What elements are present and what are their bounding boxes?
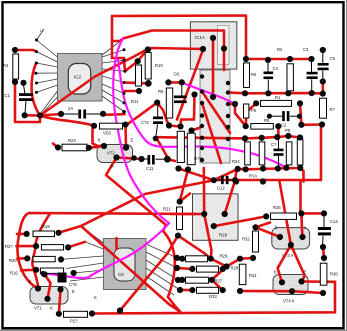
wire R21 line crossing C8 <box>120 236 178 311</box>
svg-text:R20: R20 <box>9 258 17 263</box>
resistor R5h <box>251 118 273 129</box>
wire IC1B crossing diagonal 1 <box>202 92 230 134</box>
svg-text:C14: C14 <box>330 219 338 224</box>
node pads resistor AB <box>177 123 183 129</box>
wire diagonal crossing C8 <box>81 226 180 312</box>
wire R21 top stub to V trace <box>180 194 190 202</box>
wire R31 bottom to VT4 <box>240 290 292 293</box>
diode VD2 <box>100 123 123 135</box>
IC1B left pin pads <box>200 74 204 78</box>
svg-text:R7: R7 <box>330 107 336 112</box>
capacitor C3 <box>264 61 279 92</box>
svg-text:IC2: IC2 <box>74 75 82 80</box>
node pads VD2 VT2 area <box>55 144 61 150</box>
node pads mid right <box>253 100 259 106</box>
svg-text:E: E <box>304 270 307 275</box>
wire fan down-left to R4 leg <box>15 82 40 122</box>
svg-text:C1: C1 <box>5 93 11 98</box>
wire y93 row <box>246 92 312 95</box>
wire R28 box pad2 to R25 <box>214 216 266 226</box>
wire arc tap R19 <box>17 245 37 248</box>
node pads y93 row <box>242 90 248 96</box>
capacitor C12mid <box>141 104 163 137</box>
svg-text:R25: R25 <box>273 205 281 210</box>
resistor row3 <box>186 277 223 283</box>
wire R28 box pad down-right out to row1 <box>204 214 211 259</box>
wire VD2 right pad down to VT2 top pad <box>124 125 127 148</box>
resistor R1 <box>261 95 292 106</box>
wire C14 bottom to pad <box>323 247 324 258</box>
wire junction to R31 <box>227 259 241 267</box>
svg-text:R2: R2 <box>277 47 283 52</box>
wire R7 bottom row <box>301 123 322 126</box>
resistor R18 <box>33 224 55 237</box>
svg-text:R30: R30 <box>330 272 338 277</box>
node pads VT1 <box>35 285 41 291</box>
capacitor C6 <box>269 111 299 133</box>
wire VD2 right pad up to junction <box>126 103 157 126</box>
wire magenta M1 shallow bottom run <box>43 223 169 278</box>
svg-text:VT4 K: VT4 K <box>283 299 295 304</box>
wire R19 right red stub <box>68 242 85 248</box>
node pads mid-left column <box>177 199 183 205</box>
IC2 left pin fan <box>36 29 58 115</box>
wire R25 right pads link <box>301 212 324 215</box>
wire VT4 e to right corner <box>302 280 336 283</box>
C8 left pin fan <box>61 227 104 282</box>
svg-text:R6: R6 <box>251 72 257 77</box>
capacitor C1 <box>5 85 34 113</box>
svg-text:U: U <box>40 28 43 33</box>
wire junction to R9 bottom <box>157 103 169 126</box>
transistor VT1 body <box>30 287 68 311</box>
wire resistor A top chain to IC1B pin <box>169 95 195 127</box>
wire inner arc chain <box>32 214 50 289</box>
svg-text:C8: C8 <box>174 72 180 77</box>
resistor R2 <box>277 47 293 91</box>
wire R25 right up to big line <box>299 182 302 214</box>
svg-text:VT2: VT2 <box>107 151 115 156</box>
wire IC1A vertical x213 <box>212 38 215 97</box>
wire R4 top to pin pad <box>15 50 37 52</box>
wire R23 left stub <box>53 144 58 148</box>
wire R28 box vertical in <box>203 168 206 214</box>
node pads VT4 <box>279 279 285 285</box>
resistor R10 <box>145 53 163 80</box>
svg-text:R18: R18 <box>42 224 50 229</box>
node pads VT3 <box>277 234 283 240</box>
svg-text:2A: 2A <box>68 106 73 111</box>
op-amp IC2 body <box>58 54 103 102</box>
wire magenta-end pad to VT1 bottom <box>45 274 51 299</box>
wire y93.6 right link <box>312 92 323 95</box>
IC1A outline box <box>190 22 236 69</box>
resistor R31 <box>239 264 257 284</box>
node pads top-left <box>12 47 18 53</box>
resistor R4 <box>3 54 19 79</box>
wire VT1 c to R22 <box>59 290 61 314</box>
wire row1 right to R31 top <box>211 259 227 290</box>
svg-text:R28: R28 <box>231 266 239 271</box>
wire VT2 bottom diag to arc join <box>106 158 166 232</box>
wire IC1B right pin y92 to row <box>228 91 246 94</box>
svg-text:P8: P8 <box>285 128 291 133</box>
resistor R5v <box>244 104 257 118</box>
wire R7 bottom down to big line <box>320 125 323 181</box>
wire C11 right to resistor A bottom <box>167 159 175 161</box>
node pad magenta end <box>40 271 45 276</box>
svg-text:R31: R31 <box>249 273 257 278</box>
capacitor C12 <box>215 176 235 191</box>
svg-text:C8: C8 <box>118 272 124 277</box>
wire R32 top to VT3 b <box>256 227 281 237</box>
transistor VT4 body <box>273 275 308 304</box>
wire box pad2 up stub <box>223 213 226 214</box>
capacitor C5 <box>303 47 318 92</box>
node pads R22 bottom line <box>56 311 62 317</box>
resistor network box R28 <box>193 194 239 241</box>
svg-text:VD2: VD2 <box>103 131 112 136</box>
wire VT3 bottom to VT4 b <box>278 245 291 282</box>
resistor R11 <box>131 65 142 104</box>
svg-text:C2: C2 <box>281 123 287 128</box>
wire fan pad stubs C8 right <box>177 257 182 260</box>
wire A-line overlay across R21 <box>170 213 196 216</box>
resistor R23 <box>62 138 87 151</box>
node pads R28 box <box>201 211 207 217</box>
resistor R13a vertical <box>177 131 184 162</box>
IC2 pin pads <box>35 39 38 42</box>
letter labels <box>29 138 307 301</box>
resistor row4c <box>286 142 292 165</box>
wire arc tap R18 <box>17 233 27 236</box>
capacitor C8cap <box>174 72 187 104</box>
wire y169 row <box>214 169 238 180</box>
capacitor C16 block <box>58 273 78 288</box>
resistor R7 <box>320 98 336 118</box>
wire C12 right up stub <box>235 170 236 181</box>
svg-text:R32: R32 <box>242 237 250 242</box>
wire pin elbow <box>112 57 124 60</box>
svg-text:R11: R11 <box>131 99 139 104</box>
wire IC1B pin y139 to bottom resistor row tops <box>156 136 300 138</box>
svg-text:R28: R28 <box>219 233 228 238</box>
svg-text:R23: R23 <box>68 138 76 143</box>
svg-text:C3: C3 <box>273 66 279 71</box>
wire R18 right to V vertex <box>59 226 82 233</box>
svg-text:R9: R9 <box>158 89 164 94</box>
resistor row4b <box>249 142 265 179</box>
wire fan arc to pin pad <box>32 63 40 116</box>
wire C9 elbow <box>321 82 324 94</box>
resistor R9 <box>158 88 173 118</box>
transistor VT3 body <box>272 228 310 258</box>
wire R10 top to IC1A pad <box>148 48 203 50</box>
node pads R32 R31 <box>252 224 258 230</box>
wire VD2 left pad down to VT2 <box>93 126 105 146</box>
wire R21 bottom to row1 <box>178 236 211 259</box>
resistor R25 <box>271 205 297 219</box>
wire pin link through R11 top <box>125 49 148 71</box>
wire R23 right to VT2 <box>89 146 104 148</box>
svg-text:E: E <box>131 138 134 143</box>
node pads IC1A <box>210 35 216 41</box>
resistor R20 <box>9 256 55 263</box>
wire rising trace fan to R11 R10 <box>40 49 148 116</box>
svg-text:K: K <box>50 306 53 311</box>
wire arc join to bottom line <box>168 297 180 312</box>
resistor R32 <box>242 231 259 252</box>
svg-text:C12: C12 <box>217 186 225 191</box>
node pads bottom resistor row mid <box>242 135 248 141</box>
capacitor C11 <box>142 155 168 171</box>
wire pin to R11 bottom pad <box>123 90 139 93</box>
svg-text:K: K <box>111 164 114 169</box>
capacitor C9 <box>318 50 336 81</box>
wire fan curve to VD2 left pad <box>40 116 94 126</box>
resistor R6 <box>244 63 258 88</box>
svg-text:R4: R4 <box>3 63 9 68</box>
wire magenta M2 branch <box>118 60 286 168</box>
wire R32 top rising stub <box>256 223 271 228</box>
wire arc tap R16 <box>21 268 36 271</box>
wire V trace rising to R7 column <box>81 180 321 226</box>
wire C12 right down to box pad <box>225 180 235 214</box>
svg-text:R10: R10 <box>155 63 163 68</box>
svg-text:R1: R1 <box>275 95 281 100</box>
resistor R22 <box>64 311 88 323</box>
wire magenta M1 long S <box>113 39 169 224</box>
wire fan to C1 pad <box>25 114 40 117</box>
wire magenta pad down to R5h <box>235 104 246 126</box>
svg-text:P5: P5 <box>251 108 257 113</box>
C8 right pin fan <box>146 244 180 295</box>
wire row corner to big line <box>300 168 303 182</box>
wire big long trace arc + rising line <box>18 213 205 289</box>
node pads upper middle <box>135 58 141 64</box>
svg-text:R21: R21 <box>163 207 171 212</box>
wire R32 bottom to R31 top <box>240 257 253 260</box>
wire IC1A inner diagonal <box>177 49 204 120</box>
transistor VT2 body <box>97 145 133 163</box>
node pads bottom mid resistor column <box>179 256 185 262</box>
wire bottom long line <box>92 282 335 314</box>
svg-text:C3: C3 <box>303 47 309 52</box>
resistor R16 <box>10 268 64 276</box>
svg-text:R29: R29 <box>220 254 228 259</box>
node pads bottom-left rows <box>24 231 30 237</box>
wire pin to R10 bottom pad <box>124 81 148 85</box>
wire resistor B top stub <box>192 126 203 131</box>
wire resistor B bottom diag <box>180 170 188 202</box>
wire C12mid pad to C11 right <box>156 138 168 160</box>
resistor R19 <box>5 244 64 250</box>
op-amp C8 body <box>104 239 147 290</box>
svg-text:R?A: R?A <box>249 174 257 179</box>
wire 2A cap right to pin pad <box>103 113 125 116</box>
svg-text:R2?: R2? <box>5 244 13 249</box>
resistor row2 <box>197 266 239 273</box>
wire bottom resistor row bottoms y168 <box>238 168 301 169</box>
wire R25 right down to VT3 e <box>301 213 302 237</box>
svg-text:C?: C? <box>271 142 277 147</box>
resistor R21 <box>163 207 183 230</box>
node pads R25 area <box>233 178 239 184</box>
IC1B right pin pads <box>226 81 230 85</box>
capacitor 2A <box>61 106 103 119</box>
wire fan to 2A cap pad <box>40 114 61 116</box>
IC1B tall strip <box>200 70 230 163</box>
svg-text:E: E <box>72 289 75 294</box>
svg-text:R24: R24 <box>232 159 240 164</box>
svg-text:R16: R16 <box>10 271 18 276</box>
wire R1 left link <box>246 103 256 126</box>
wire y59 top-right row <box>246 58 312 61</box>
node pad under C12mid <box>153 136 159 142</box>
wire upper middle elbow to IC1A column <box>112 31 224 71</box>
svg-text:C?8: C?8 <box>69 282 77 287</box>
capacitor C13 <box>271 140 284 167</box>
wire resistor A bottom diag <box>179 169 214 181</box>
wire R5h right to C13 top <box>277 126 280 138</box>
svg-text:P2?: P2? <box>70 319 78 324</box>
capacitor C14 <box>318 215 338 245</box>
wire arc tap R20 <box>18 257 28 260</box>
resistor row4 <box>197 287 219 299</box>
wire IC1B crossing diagonal 2 <box>202 103 221 163</box>
svg-text:IC1A: IC1A <box>195 35 205 40</box>
svg-text:K: K <box>94 295 97 300</box>
wire pin pads vertical link <box>124 59 125 72</box>
svg-text:VT1: VT1 <box>34 306 42 311</box>
svg-text:C?2: C?2 <box>141 120 149 125</box>
wire central steep down <box>280 182 305 282</box>
wire top loop vertical x112 <box>112 16 246 60</box>
svg-text:R33: R33 <box>209 294 217 299</box>
wire C8 top pin stub <box>115 238 118 249</box>
wire IC1B pin y104 to magenta pad <box>228 103 235 106</box>
wire R30 bottom to corner <box>292 291 323 293</box>
resistor row4a <box>232 142 250 165</box>
resistor R13b vertical <box>187 133 202 165</box>
wire C8cap pads <box>168 81 181 84</box>
resistor row1 <box>186 254 228 262</box>
wire x301 vertical <box>300 103 301 124</box>
svg-text:C11: C11 <box>146 166 154 171</box>
wire magenta M3 short <box>182 82 235 104</box>
resistor row4d <box>297 139 303 165</box>
IC2 right pin fan <box>102 40 125 112</box>
svg-text:C9: C9 <box>330 56 336 61</box>
wire C8 right arc <box>163 231 175 297</box>
resistor R30 <box>320 263 338 285</box>
svg-text:R27: R27 <box>215 279 223 284</box>
node pads top right row <box>243 56 249 62</box>
